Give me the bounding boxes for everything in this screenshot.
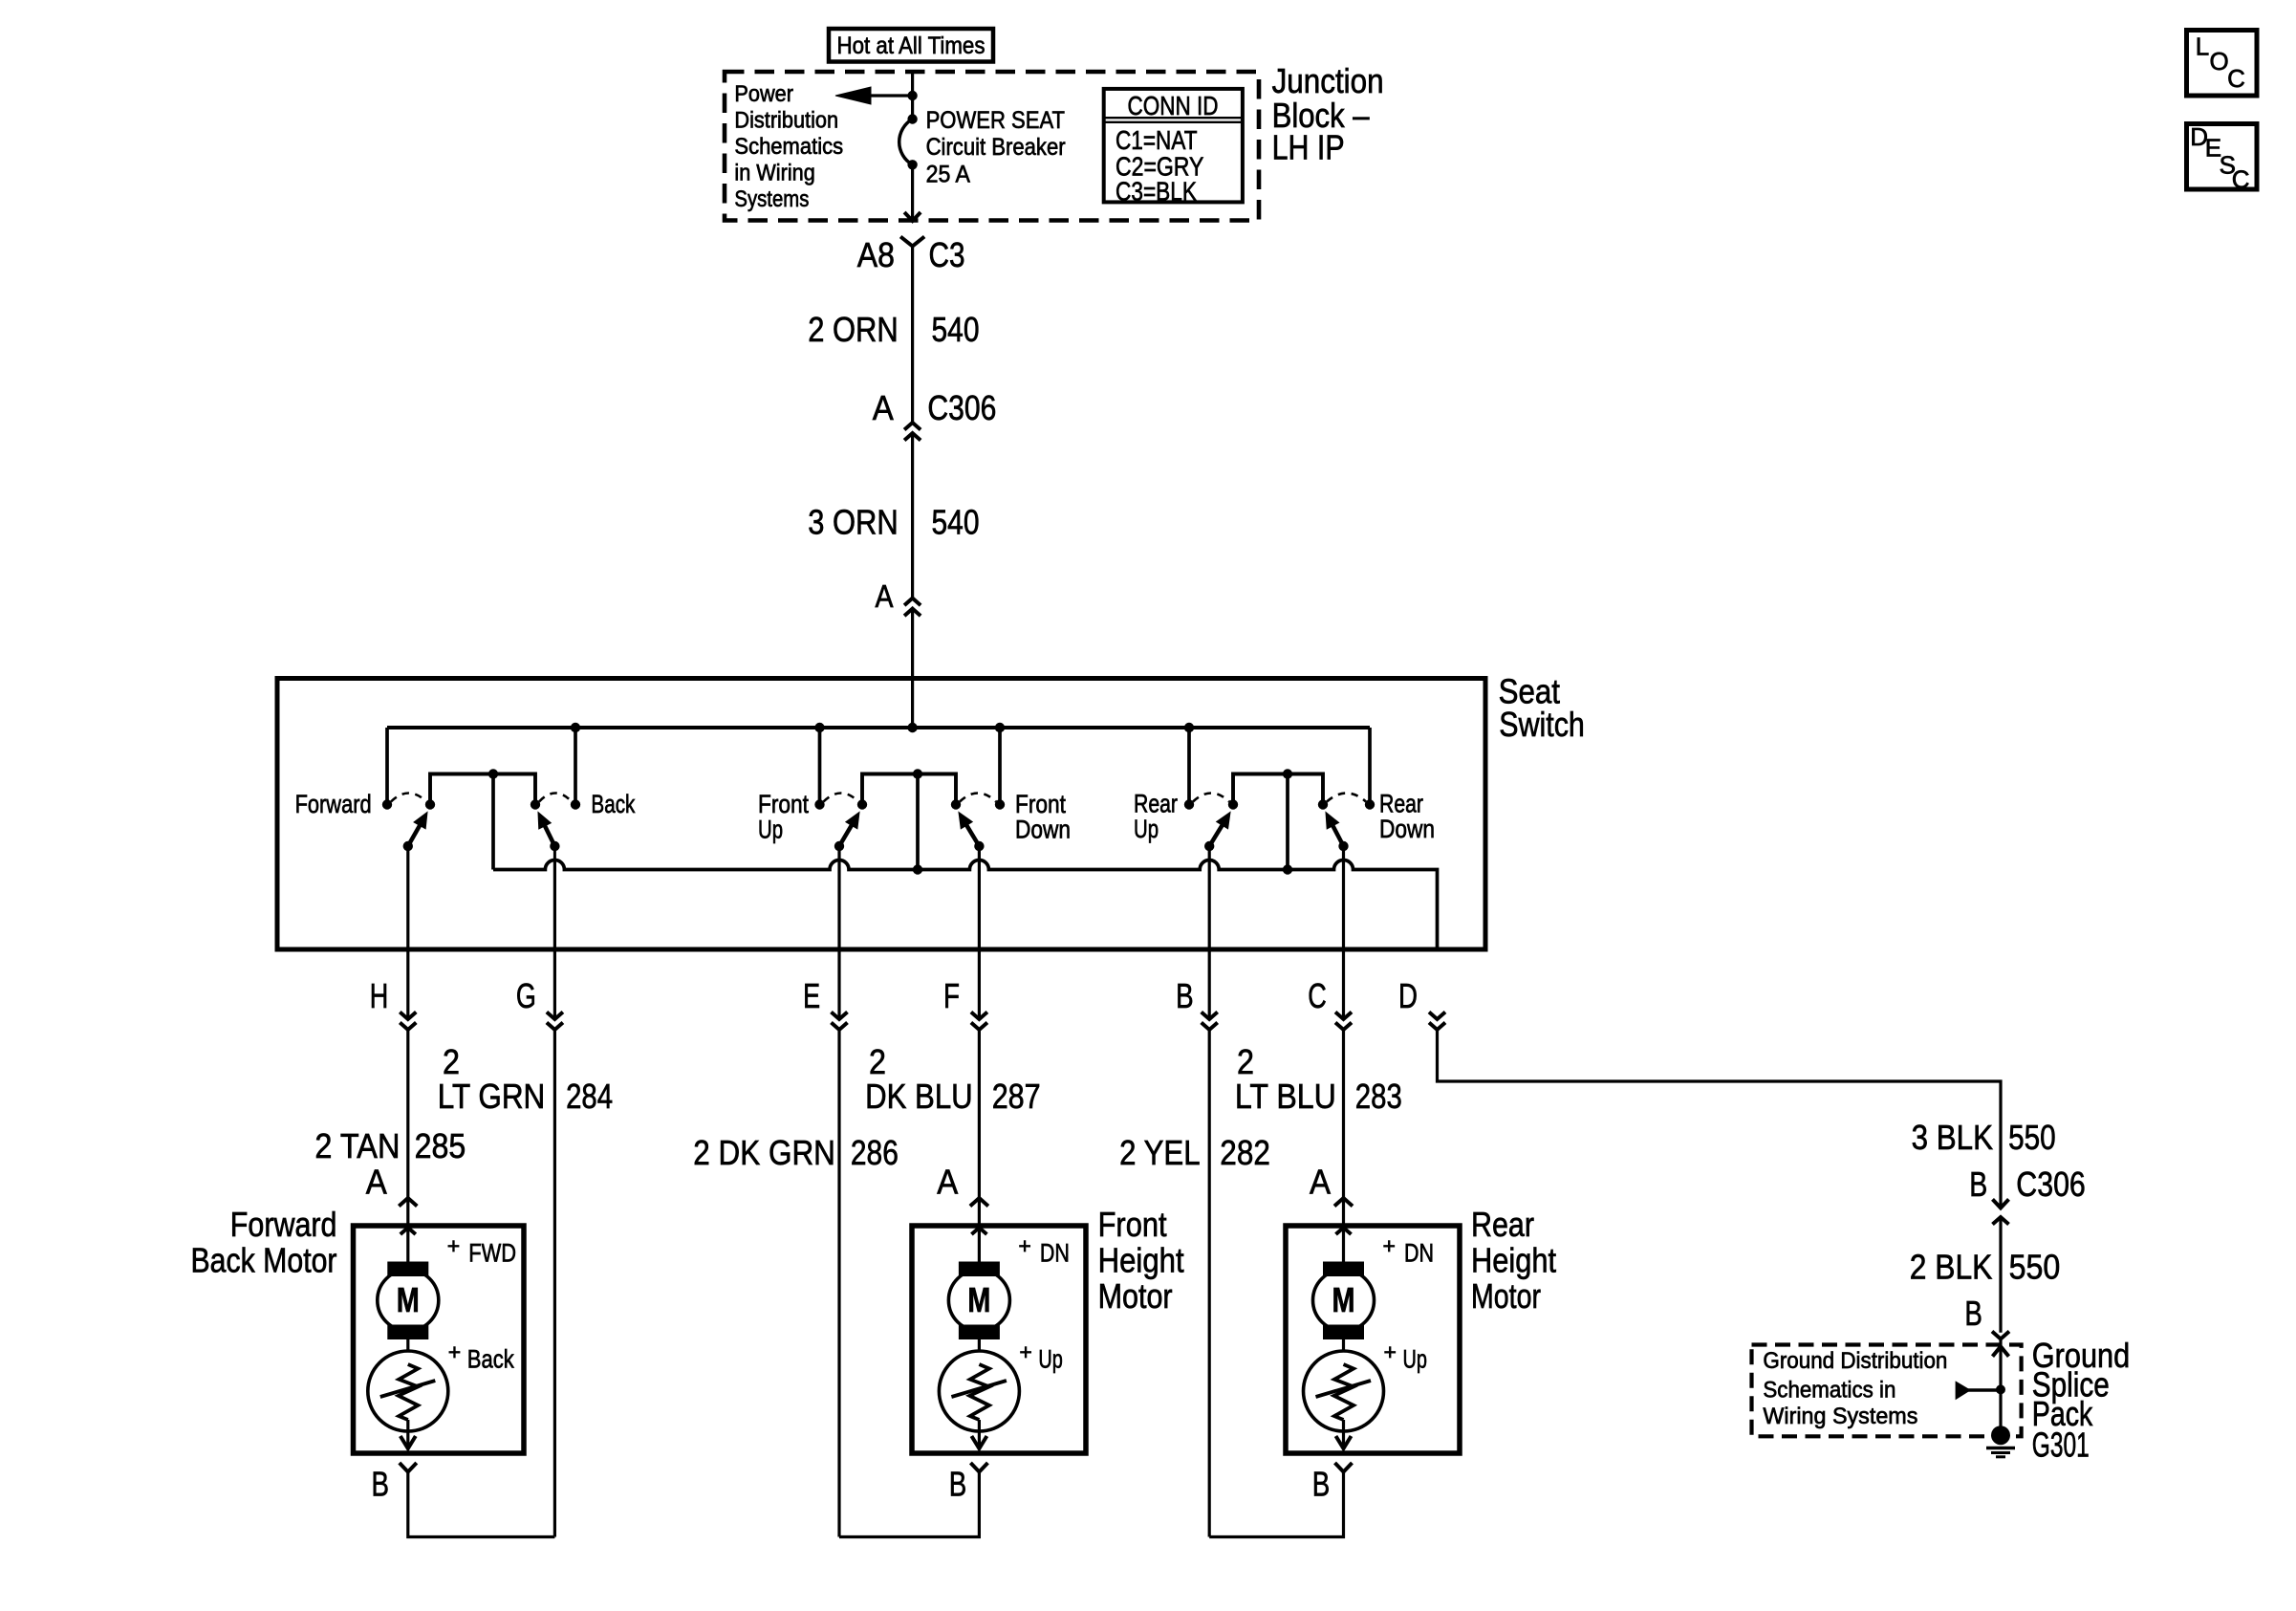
switch armature left (403, 813, 427, 852)
node: bridge bar to rail tap (1283, 769, 1292, 778)
svg-text:CONN ID: CONN ID (1128, 91, 1219, 120)
svg-text:Height: Height (1098, 1240, 1184, 1279)
svg-text:550: 550 (2008, 1118, 2056, 1157)
wire: supply bus inside seat switch (387, 726, 1370, 729)
wire: motor feed with arrow (971, 1198, 986, 1262)
wire: breaker output to junction block edge (911, 164, 914, 221)
thermal protector (PTC) symbol (368, 1351, 448, 1431)
svg-text:Forward: Forward (230, 1205, 337, 1244)
wire: protector to pin B with arrow (401, 1420, 416, 1448)
wire: feed to right contact (998, 728, 1002, 805)
wire H: 2 TAN 285 to forward/back motor (406, 1030, 409, 1198)
svg-text:283: 283 (1355, 1077, 1402, 1116)
connector: motor pin B fork (400, 1463, 417, 1472)
svg-text:Schematics: Schematics (734, 134, 843, 160)
svg-text:25 A: 25 A (926, 162, 971, 188)
note: Ground Distribution Schematics in Wiring Systems (1763, 1348, 1947, 1429)
wire F: 2 DK BLU 287 to front height motor (978, 1030, 981, 1198)
svg-text:A: A (1310, 1163, 1331, 1202)
svg-text:Ground Distribution: Ground Distribution (1763, 1348, 1947, 1374)
dashed actuation arc right (539, 794, 572, 802)
ground symbol (1986, 1448, 2015, 1457)
thermal protector (PTC) symbol (939, 1351, 1019, 1431)
svg-text:284: 284 (566, 1077, 613, 1116)
svg-text:A: A (876, 578, 894, 614)
svg-text:Front: Front (1098, 1205, 1167, 1244)
wire: feed to left contact (385, 728, 389, 805)
svg-text:2: 2 (1237, 1042, 1254, 1081)
connectors: seat switch output pins (400, 1012, 1445, 1031)
wire: bridge bar (1233, 774, 1323, 805)
motor armature symbol M (948, 1262, 1009, 1339)
svg-text:DN: DN (1040, 1239, 1070, 1268)
svg-text:Forward: Forward (295, 790, 372, 818)
label: + DN (1383, 1233, 1435, 1268)
svg-text:Switch: Switch (1499, 705, 1585, 744)
node: feed/arrow junction (907, 91, 917, 100)
label: 2 BLK 550 (1910, 1248, 2061, 1287)
svg-text:C: C (2232, 165, 2250, 194)
dashed actuation arc right (960, 794, 996, 802)
svg-text:+: + (1384, 1339, 1397, 1364)
svg-text:G301: G301 (2032, 1426, 2090, 1465)
wire: motor feed with arrow (401, 1198, 416, 1262)
wire: motor to thermal protector (406, 1339, 409, 1367)
motor armature symbol M (378, 1262, 439, 1339)
svg-text:285: 285 (415, 1126, 466, 1165)
svg-text:C3: C3 (929, 235, 965, 274)
CONN ID table (1104, 89, 1243, 207)
svg-text:540: 540 (932, 310, 980, 349)
svg-text:C: C (1308, 976, 1327, 1015)
dashed actuation arc left (391, 794, 426, 802)
wire: M1 return loop (408, 1472, 555, 1537)
label: Ground Splice Pack G301 (2032, 1336, 2130, 1465)
node: bridge bar to rail tap (913, 769, 922, 778)
label: 2 YEL 282 (1119, 1133, 1270, 1172)
motor M3: Rear Height Motor (0, 0, 1, 1)
switch armature left (834, 813, 859, 852)
svg-text:Motor: Motor (1098, 1276, 1173, 1316)
svg-text:LH IP: LH IP (1272, 128, 1345, 167)
svg-text:E: E (803, 976, 820, 1015)
motor name label (1471, 1205, 1556, 1316)
svg-text:B: B (371, 1465, 389, 1504)
wire D: 3 BLK 550 run to ground (1438, 1030, 2002, 1208)
svg-text:C3=BLK: C3=BLK (1116, 177, 1197, 207)
svg-text:Circuit Breaker: Circuit Breaker (926, 134, 1066, 161)
svg-text:Up: Up (1134, 815, 1159, 843)
svg-text:FWD: FWD (468, 1239, 516, 1268)
label: Seat Switch (1499, 672, 1585, 745)
svg-text:B: B (1969, 1165, 1987, 1204)
switch armature right (959, 813, 985, 852)
switch section: Front Up/Front Down (0, 0, 1, 1)
seat switch box (277, 679, 1485, 950)
label: 3 BLK 550 (1912, 1118, 2056, 1157)
motor armature symbol M (1313, 1262, 1375, 1339)
arrow: to ground distribution schematics (1956, 1382, 2001, 1399)
motor M2: Front Height Motor (0, 0, 1, 1)
wire: 2 BLK 550 segment (1999, 1217, 2002, 1333)
switch section: Forward/Back (0, 0, 1, 1)
svg-text:LT BLU: LT BLU (1235, 1077, 1336, 1116)
svg-text:B: B (1964, 1294, 1982, 1333)
svg-text:Down: Down (1015, 816, 1071, 844)
svg-text:Junction: Junction (1272, 61, 1384, 100)
node: splice junction (1996, 1384, 2005, 1394)
svg-text:Systems: Systems (734, 186, 809, 212)
svg-text:Motor: Motor (1471, 1276, 1541, 1316)
svg-text:+: + (1383, 1233, 1396, 1258)
svg-text:Wiring Systems: Wiring Systems (1763, 1404, 1917, 1429)
svg-text:2: 2 (443, 1042, 460, 1081)
svg-text:DN: DN (1404, 1239, 1434, 1268)
svg-text:B: B (949, 1465, 967, 1504)
label: Rear Down (1379, 790, 1435, 844)
svg-text:F: F (943, 976, 960, 1015)
label: 3 ORN 540 (808, 503, 979, 542)
svg-text:POWER SEAT: POWER SEAT (926, 107, 1065, 134)
label: Rear Up (1134, 790, 1178, 844)
wire: feed to left contact (818, 728, 822, 805)
label: 2 DK BLU 287 (865, 1042, 1041, 1116)
arrow at junction block exit (904, 212, 921, 221)
svg-text:M: M (397, 1280, 420, 1319)
label: Junction Block - LH IP (1272, 61, 1384, 167)
wire: into seat switch (911, 609, 914, 728)
switch armature right (1326, 813, 1349, 852)
svg-text:B: B (1312, 1465, 1331, 1504)
svg-text:A: A (873, 388, 894, 427)
label: + Back (448, 1339, 514, 1374)
svg-text:+: + (1019, 1339, 1031, 1364)
svg-text:2 YEL: 2 YEL (1119, 1133, 1201, 1172)
wire E: 2 DK GRN 286 (837, 1030, 840, 1537)
svg-text:B: B (1176, 976, 1194, 1015)
svg-text:A8: A8 (857, 235, 895, 274)
connector C306 pin B on ground wire (1969, 1165, 2086, 1204)
wire: 2 ORN 540 segment (911, 247, 914, 424)
svg-text:Down: Down (1379, 815, 1435, 843)
circuit breaker: POWER SEAT Circuit Breaker 25 A (899, 107, 1066, 187)
DESC reference box (2187, 122, 2258, 194)
svg-text:DK BLU: DK BLU (865, 1077, 973, 1116)
label: Front Down (1015, 790, 1071, 844)
motor box (1286, 1226, 1460, 1453)
svg-text:Front: Front (758, 790, 809, 818)
svg-text:2: 2 (869, 1042, 886, 1081)
svg-text:Back: Back (467, 1345, 514, 1374)
connector: ground splice fork (1992, 1332, 2009, 1339)
svg-text:Hot at All Times: Hot at All Times (837, 33, 986, 59)
wire: protector to pin B with arrow (971, 1420, 986, 1448)
connector C306 pin A (873, 388, 997, 427)
switch section: Rear Up/Rear Down (0, 0, 1, 1)
wire: feed to right contact (1368, 728, 1372, 805)
svg-text:2 ORN: 2 ORN (808, 310, 899, 349)
label: + Up (1384, 1339, 1427, 1374)
motor name label (191, 1205, 337, 1280)
node: bridge bar to rail tap (488, 769, 498, 778)
svg-text:C306: C306 (2016, 1165, 2086, 1204)
wire: M2 return loop (839, 1472, 979, 1537)
label: 2 LT GRN 284 (438, 1042, 613, 1116)
svg-text:in Wiring: in Wiring (734, 160, 814, 185)
connector: motor pin B fork (970, 1463, 987, 1472)
wire C: 2 LT BLU 283 to rear height motor (1342, 1030, 1345, 1198)
motor M1: Forward Back Motor (0, 0, 1, 1)
wire B: 2 YEL 282 (1208, 1030, 1211, 1537)
label: + Up (1019, 1339, 1062, 1374)
wire: bridge bar (862, 774, 956, 805)
motor name label (1098, 1205, 1184, 1316)
connector A8/C3 fork (900, 237, 924, 247)
label: + FWD (447, 1233, 516, 1268)
label: 2 TAN 285 (314, 1126, 466, 1165)
svg-text:Front: Front (1015, 790, 1066, 818)
svg-text:M: M (1332, 1280, 1355, 1319)
switch armature left (1204, 813, 1230, 852)
svg-text:287: 287 (992, 1077, 1041, 1116)
svg-text:+: + (1018, 1233, 1030, 1258)
wire: motor to thermal protector (1342, 1339, 1345, 1367)
svg-text:Distribution: Distribution (734, 107, 838, 133)
wires: switch outputs leaving box (408, 846, 1344, 1019)
node: bus taps (571, 723, 1194, 732)
svg-text:Height: Height (1471, 1240, 1556, 1279)
Hot at All Times power label box (829, 29, 993, 62)
contact dots (382, 799, 580, 809)
svg-text:A: A (937, 1163, 958, 1202)
arrow to power distribution schematics (835, 87, 913, 104)
node: ground splice G301 (1991, 1426, 2010, 1445)
svg-text:Up: Up (1038, 1345, 1062, 1374)
switch armature right (538, 813, 560, 852)
motor box (912, 1226, 1086, 1453)
ground splice pack dashed box (1752, 1345, 2022, 1437)
LOC reference box (2187, 31, 2258, 97)
wire: motor to thermal protector (978, 1339, 981, 1367)
svg-text:L: L (2196, 33, 2209, 61)
note: Power Distribution Schematics in Wiring Systems (734, 81, 843, 212)
wire: bridge tap verticals to rail (493, 774, 1288, 870)
svg-text:540: 540 (932, 503, 980, 542)
dashed actuation arc left (824, 794, 859, 802)
svg-text:+: + (447, 1233, 460, 1258)
svg-text:H: H (370, 976, 389, 1015)
svg-text:Up: Up (1403, 1345, 1427, 1374)
thermal protector (PTC) symbol (1304, 1351, 1384, 1431)
svg-text:2 TAN: 2 TAN (314, 1126, 400, 1165)
svg-text:Power: Power (734, 81, 793, 107)
node: rail taps (913, 864, 1292, 874)
wire: protector to pin B with arrow (1336, 1420, 1352, 1448)
label: 2 LT BLU 283 (1235, 1042, 1402, 1116)
svg-text:Rear: Rear (1134, 790, 1178, 818)
svg-text:LT GRN: LT GRN (438, 1077, 546, 1116)
svg-text:A: A (366, 1163, 387, 1202)
svg-text:3 ORN: 3 ORN (808, 503, 899, 542)
wire: splice lead with up arrow (1993, 1346, 2009, 1435)
label: + DN (1018, 1233, 1070, 1268)
contact dots (1184, 799, 1375, 809)
label: 2 DK GRN 286 (693, 1133, 899, 1172)
svg-text:Back Motor: Back Motor (191, 1240, 337, 1279)
svg-text:Back: Back (591, 790, 635, 818)
dashed actuation arc right (1327, 794, 1366, 802)
wire: battery feed inside junction block (911, 72, 914, 120)
svg-text:282: 282 (1220, 1133, 1270, 1172)
wire: feed to left contact (1187, 728, 1191, 805)
svg-text:O: O (2210, 47, 2229, 76)
dashed actuation arc left (1193, 794, 1229, 802)
motor box (354, 1226, 525, 1453)
svg-text:C306: C306 (927, 388, 996, 427)
svg-text:Rear: Rear (1379, 790, 1423, 818)
wire: common return rail with hops (493, 860, 1438, 949)
svg-text:Schematics in: Schematics in (1763, 1378, 1895, 1404)
wire: 3 ORN 540 segment (911, 433, 914, 599)
svg-text:M: M (967, 1280, 990, 1319)
svg-text:286: 286 (851, 1133, 899, 1172)
wire G: 2 LT GRN 284 (553, 1030, 556, 1537)
node: feed to bus (907, 723, 917, 732)
svg-text:2 BLK: 2 BLK (1910, 1248, 1993, 1287)
connector: motor pin B fork (1335, 1463, 1353, 1472)
svg-text:3 BLK: 3 BLK (1912, 1118, 1993, 1157)
label: 2 ORN 540 (808, 310, 979, 349)
wire: feed to right contact (574, 728, 577, 805)
svg-text:+: + (448, 1339, 461, 1364)
pin labels H G E F B C D (370, 976, 1418, 1015)
wire: M3 return loop (1209, 1472, 1343, 1537)
svg-text:2 DK GRN: 2 DK GRN (693, 1133, 835, 1172)
svg-text:Up: Up (758, 816, 783, 844)
svg-text:C: C (2227, 64, 2245, 93)
label: Front Up (758, 790, 809, 844)
Junction Block - LH IP dashed box (725, 72, 1259, 221)
svg-text:C1=NAT: C1=NAT (1116, 125, 1198, 155)
wire: motor feed with arrow (1336, 1198, 1352, 1262)
wire: bridge bar (430, 774, 535, 805)
svg-text:G: G (516, 976, 536, 1015)
svg-text:D: D (1398, 976, 1418, 1015)
contact dots (814, 799, 1005, 809)
svg-text:550: 550 (2009, 1248, 2061, 1287)
svg-text:Rear: Rear (1471, 1205, 1534, 1244)
